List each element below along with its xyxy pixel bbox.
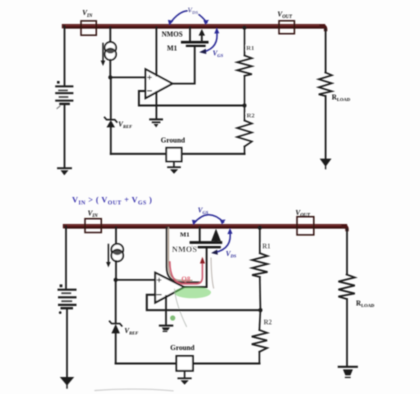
ground (battery, top circuit) (58, 168, 71, 175)
svg-text:VOUT: VOUT (277, 10, 293, 20)
zener diode VREF (bottom) (110, 321, 122, 333)
ground (RLOAD, top circuit, arrow style) (320, 159, 332, 169)
port box VOUT (bottom circuit) (297, 217, 314, 235)
wire op-amp ground lead (155, 92, 157, 119)
node B (junction dot) (114, 278, 118, 282)
wire right drop to RLOAD (bottom) (346, 229, 348, 275)
wire feedback to op-amp - input (bottom) (147, 295, 261, 310)
annotation arc VGS (bottom circuit, blue) (192, 215, 226, 225)
annotation green dot (170, 315, 175, 320)
annotation arrow VGS (top circuit, blue) (199, 28, 219, 54)
wire node A down to zener (110, 77, 112, 119)
resistor R1 (top circuit) (237, 28, 252, 105)
resistor RLOAD (top circuit) (319, 73, 332, 97)
op-amp U2 (155, 273, 184, 303)
resistor R1 (bottom circuit) (252, 228, 267, 310)
resistor RLOAD (bottom circuit) (338, 275, 354, 300)
ground (terminal, top circuit) (168, 167, 180, 174)
annotation faint pencil stroke (bottom edge) (95, 389, 173, 391)
wire op-amp output to gate (172, 47, 195, 84)
svg-text:VIN: VIN (82, 9, 93, 19)
transistor M1 (NMOS pass device, top circuit) (182, 27, 207, 46)
annotation red arrow (gate drive path, bottom circuit) (170, 257, 205, 284)
port box VOUT (top circuit) (279, 21, 294, 34)
ground (op-amp, top circuit) (150, 119, 162, 127)
svg-text:VGS: VGS (198, 207, 209, 216)
ground (battery, bottom circuit, arrow style) (60, 377, 74, 388)
port box VIN (bottom circuit) (85, 219, 101, 233)
wire node B to op-amp + input (bottom) (116, 279, 156, 281)
zener diode VREF (105, 117, 117, 127)
port box VIN (top circuit) (81, 21, 96, 35)
svg-text:VDS: VDS (188, 7, 199, 16)
node A (junction dot) (108, 75, 112, 79)
svg-text:RLOAD: RLOAD (356, 300, 375, 309)
ground (terminal, bottom circuit) (178, 378, 191, 384)
wire VIN rail (bottom) (65, 225, 345, 228)
resistor R2 (bottom circuit) (252, 310, 267, 363)
node rail/R1 junction (242, 26, 246, 30)
annotation arrow VDS (bottom circuit, blue) (211, 228, 232, 255)
svg-text:R1: R1 (246, 45, 254, 52)
svg-text:NMOS: NMOS (162, 31, 183, 39)
svg-text:NMOS: NMOS (172, 245, 197, 254)
svg-text:VREF: VREF (118, 121, 132, 130)
wire zener to ground line (110, 127, 112, 154)
wire op-amp output to gate (bottom) (184, 249, 207, 287)
wire current source to node A (109, 60, 111, 78)
svg-text:VREF: VREF (124, 327, 138, 336)
svg-text:Q8: Q8 (181, 275, 190, 283)
annotation gray inner U (bottom circuit) (169, 228, 193, 281)
wire left drop to battery (bottom) (65, 226, 67, 288)
wire RLOAD to ground (325, 96, 327, 159)
svg-text:VDS: VDS (226, 250, 237, 259)
wire zener to ground line (bottom) (115, 333, 117, 363)
wire op-amp ground lead (bottom) (165, 296, 167, 325)
svg-text:Ground: Ground (170, 344, 194, 352)
ground terminal box (bottom circuit) (176, 356, 193, 378)
annotation arc VDS (top circuit, blue) (168, 11, 209, 25)
wire VIN rail (top) (64, 25, 323, 28)
svg-text:R2: R2 (247, 112, 256, 119)
ground terminal box (top circuit) (166, 148, 181, 167)
svg-text:M1: M1 (180, 232, 190, 239)
wire rail right corner (bottom) (343, 226, 347, 229)
annotation black U (supply sweep, bottom circuit) (167, 228, 200, 283)
svg-text:R1: R1 (262, 244, 271, 251)
wire ground line (top circuit) (111, 153, 167, 155)
wire ground line (bottom circuit) (116, 362, 177, 364)
wire op-amp V+ supply from rail (155, 27, 157, 76)
ground (RLOAD, bottom circuit) (339, 367, 357, 378)
ground (op-amp, bottom circuit) (160, 326, 172, 332)
annotation ghost gray line (right of gate lead) (211, 258, 214, 288)
wire left drop to battery (64, 26, 66, 85)
battery B2 (59, 284, 76, 314)
svg-text:VIN > ( VOUT + VGS ): VIN > ( VOUT + VGS ) (72, 196, 152, 207)
node rail/R1 junction (bottom) (258, 226, 262, 230)
node feedback junction (R1/R2) (243, 104, 247, 108)
wire rail right corner (321, 26, 326, 29)
current source I2 (106, 244, 123, 268)
svg-text:R2: R2 (264, 320, 273, 327)
svg-text:VGS: VGS (213, 49, 224, 58)
wire current source to node B (115, 261, 117, 280)
wire right drop to RLOAD (325, 29, 327, 73)
wire rail to current source (109, 27, 111, 43)
svg-text:Ground: Ground (161, 136, 185, 144)
annotation green highlight blob (174, 287, 211, 299)
resistor R2 (top circuit) (237, 106, 252, 155)
wire feedback to op-amp - input (139, 91, 245, 106)
wire rail to current source (bottom) (115, 227, 117, 245)
wire node A to op-amp + input (110, 76, 145, 78)
wire RLOAD to ground (bottom) (346, 299, 348, 366)
svg-text:M1: M1 (167, 44, 178, 52)
wire node B down to zener (bottom) (115, 280, 117, 323)
svg-text:VIN: VIN (88, 209, 99, 219)
op-amp U1 (146, 69, 173, 98)
transistor M1 (NMOS pass device, bottom circuit) (191, 227, 221, 247)
battery B1 (56, 81, 72, 109)
node feedback junction (bottom) (258, 308, 262, 312)
wire battery to ground (bottom) (66, 309, 68, 378)
wire battery to ground (64, 104, 66, 168)
annotation thin gray curve (175, 289, 187, 327)
svg-text:RLOAD: RLOAD (332, 94, 351, 103)
current source I1 (101, 42, 116, 66)
